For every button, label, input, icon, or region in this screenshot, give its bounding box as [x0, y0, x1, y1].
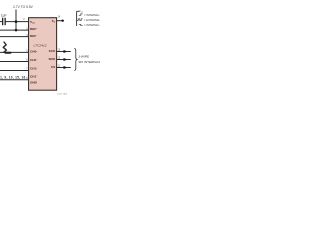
svg-text:1µF: 1µF [1, 13, 7, 17]
svg-text:SPI INTERFACE: SPI INTERFACE [78, 60, 100, 64]
svg-text:2412 TA01: 2412 TA01 [57, 93, 68, 96]
svg-text:= INTERNAL OSC/60Hz REJ: = INTERNAL OSC/60Hz REJ [84, 13, 100, 17]
svg-text:GND: GND [30, 81, 38, 85]
svg-text:14: 14 [58, 15, 61, 18]
svg-text:CS: CS [51, 65, 55, 69]
svg-text:SDO: SDO [48, 57, 55, 61]
svg-text:= EXTERNAL CLOCK SOURCE: = EXTERNAL CLOCK SOURCE [84, 18, 100, 22]
svg-text:3-WIRE: 3-WIRE [78, 54, 89, 58]
svg-text:= INTERNAL OSC/50Hz REJ: = INTERNAL OSC/50Hz REJ [84, 23, 100, 27]
svg-text:1, 9, 10, 15, 16: 1, 9, 10, 15, 16 [0, 76, 25, 80]
svg-text:2: 2 [23, 18, 25, 21]
svg-text:SCK: SCK [49, 49, 56, 53]
svg-text:VCC: VCC [79, 9, 84, 14]
svg-text:LTC2412: LTC2412 [34, 43, 47, 47]
svg-text:2.7V TO 5.5V: 2.7V TO 5.5V [13, 5, 34, 9]
